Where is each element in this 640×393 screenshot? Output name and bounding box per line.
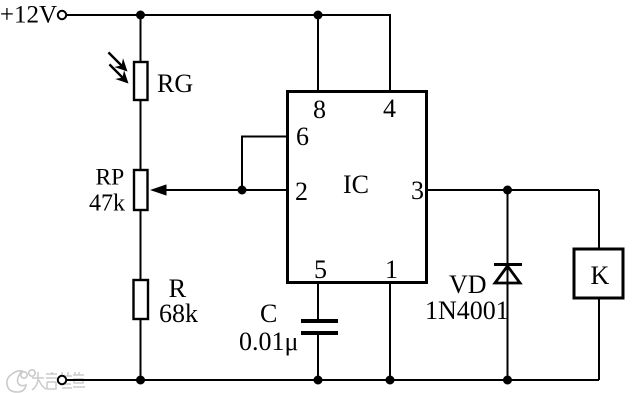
junction top left branch — [136, 11, 145, 20]
wire C to bottom rail — [317, 335, 319, 380]
terminal 0V — [58, 376, 66, 384]
photoresistor RG — [134, 62, 148, 100]
wire pin3 to K — [598, 190, 600, 249]
watermark text — [32, 372, 85, 390]
terminal +12V — [58, 11, 66, 19]
wire top rail — [67, 14, 391, 16]
svg-text:K: K — [591, 261, 610, 290]
watermark logo — [7, 370, 35, 392]
junction top pin 8 — [314, 11, 323, 20]
svg-text:RP: RP — [96, 165, 125, 191]
svg-text:0.01μ: 0.01μ — [239, 327, 298, 356]
wire pin 8 — [317, 15, 319, 91]
wiper arrowhead — [150, 184, 167, 195]
capacitor C bottom plate — [301, 331, 338, 335]
light arrow 2 of RG — [105, 60, 133, 88]
junction pin2 pin6 — [238, 186, 247, 195]
wire R to bottom rail — [140, 319, 142, 380]
svg-text:5: 5 — [314, 255, 327, 284]
svg-text:+12V: +12V — [0, 2, 57, 29]
wire K to bottom rail — [598, 298, 600, 380]
svg-text:1N4001: 1N4001 — [425, 296, 509, 325]
wire top to RG — [140, 15, 142, 62]
wire pin 4 — [389, 14, 391, 91]
IC U1 box — [288, 92, 427, 283]
diode VD cathode bar — [494, 263, 522, 266]
svg-text:IC: IC — [343, 170, 369, 199]
diode VD triangle — [495, 266, 520, 283]
svg-text:68k: 68k — [159, 299, 198, 328]
svg-text:4: 4 — [383, 94, 396, 123]
wire bottom rail — [67, 379, 600, 381]
junction VD top — [503, 186, 512, 195]
wire pin 1 — [389, 282, 391, 380]
svg-text:3: 3 — [411, 176, 424, 205]
junction bottom VD — [503, 376, 512, 385]
wire VD branch — [507, 190, 509, 380]
svg-text:8: 8 — [313, 95, 326, 124]
wire pin 6 — [242, 137, 286, 191]
junction bottom R — [136, 376, 145, 385]
wire RP to R — [140, 210, 142, 280]
svg-text:C: C — [260, 299, 277, 328]
junction bottom pin1 — [386, 376, 395, 385]
junction bottom C — [314, 376, 323, 385]
relay K box — [574, 249, 623, 298]
light arrow 1 of RG — [104, 48, 132, 76]
potentiometer RP — [134, 170, 148, 210]
wire pin 5 — [317, 282, 319, 320]
capacitor C top plate — [301, 319, 338, 323]
svg-text:6: 6 — [296, 122, 309, 151]
svg-text:1: 1 — [385, 255, 398, 284]
svg-text:47k: 47k — [89, 191, 125, 217]
wire RG to RP — [140, 100, 142, 170]
wire pin 3 — [428, 189, 599, 191]
svg-text:VD: VD — [449, 270, 487, 299]
svg-text:2: 2 — [295, 177, 308, 206]
resistor R — [134, 280, 149, 319]
wire pin 2 wiper — [153, 189, 286, 191]
svg-text:RG: RG — [157, 69, 193, 98]
